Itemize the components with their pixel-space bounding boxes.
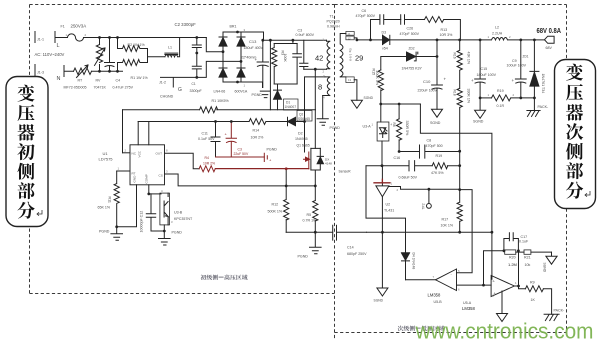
output tag 68V [545,36,555,43]
svg-text:10R 2%: 10R 2% [251,136,265,140]
ground SGND U5-A [497,314,508,322]
capacitor C14 Y-cap [333,225,367,240]
resistor R15 [378,70,383,104]
node N terminal [64,66,74,77]
mosfet Q1 channel [310,148,312,170]
wire TL431 anode down [381,197,383,288]
optocoupler U3-A [377,122,389,141]
svg-text:+: + [512,78,515,83]
svg-text:LD7575: LD7575 [99,157,114,162]
resistor R14 [249,119,287,125]
svg-text:470pF 500V: 470pF 500V [400,32,420,36]
svg-text:VCC: VCC [138,150,142,157]
bridge rectifier BR1 top bar [223,32,264,40]
bridge bottom bar [223,77,263,87]
wire aux top to D2 node [305,77,326,122]
ground SGND R21 [546,252,557,264]
capacitor CX 0.47uF [105,38,115,72]
resistor R3 clamp [272,44,277,85]
svg-text:T1: T1 [330,15,334,19]
U1 pin names [132,150,163,183]
svg-text:200K 5%: 200K 5% [375,71,379,86]
svg-text:J1-1: J1-1 [37,38,44,42]
diode D body [317,148,323,156]
svg-text:68V: 68V [546,46,553,50]
svg-text:180uF 100V: 180uF 100V [477,73,497,77]
pin RT stub [117,170,130,172]
op-amp U5-A [491,276,514,297]
svg-text:D1: D1 [286,101,290,105]
long wire sense top [420,104,492,279]
svg-text:C11: C11 [202,132,208,136]
svg-text:R15: R15 [372,69,376,76]
svg-text:R13: R13 [441,28,448,32]
svg-text:1K: 1K [531,298,536,302]
pin OUT wire [165,153,200,169]
svg-text:D2: D2 [298,132,303,136]
svg-text:R1 10K5%: R1 10K5% [212,99,230,103]
svg-text:R14: R14 [253,129,260,133]
pin CS wire [165,174,316,186]
optocoupler U3-B [160,193,170,225]
wire TL431 ref riser [366,166,406,233]
svg-text:C1: C1 [192,82,196,86]
DC bus wire [264,39,327,41]
svg-text:PQ2620: PQ2620 [327,20,340,24]
capacitor C1 3300pF [192,53,201,77]
svg-text:F1: F1 [61,25,65,29]
svg-text:47K 5%: 47K 5% [431,171,444,175]
svg-text:L2: L2 [495,26,499,30]
svg-text:11: 11 [348,32,351,36]
svg-text:C3: C3 [298,29,303,33]
svg-text:680pF 250V: 680pF 250V [347,252,367,256]
resistor R6 [397,119,402,152]
wire COMP to opto [149,193,161,195]
svg-text:AC: 110V~240V: AC: 110V~240V [35,52,65,57]
svg-text:MF72-05D005: MF72-05D005 [64,86,87,90]
transformer T1 aux winding 8T [323,77,330,96]
VCC rail wire [138,121,249,123]
svg-text:0.1uF 50V: 0.1uF 50V [198,137,215,141]
resistor R7 startup 10K [123,107,316,113]
resistor R5 sense [313,201,318,247]
primary region dashed box [30,5,335,294]
wire fb to output [518,252,520,286]
svg-text:R6: R6 [392,123,396,127]
svg-text:U3-B: U3-B [174,211,183,215]
region captions [201,275,207,280]
svg-text:600V1A: 600V1A [235,90,248,94]
svg-text:C26: C26 [407,27,414,31]
svg-text:470pF 500V: 470pF 500V [356,14,376,18]
wire ZD2 branch [381,40,437,70]
svg-text:C17: C17 [521,235,528,239]
ground PGND opto [159,231,171,245]
diode BR1-D2 [237,32,245,37]
svg-text:C15: C15 [481,67,488,71]
svg-text:C13: C13 [249,39,257,44]
svg-text:J1-3: J1-3 [37,71,44,75]
resistor R13 [425,17,461,40]
feedback riser [484,251,505,285]
svg-text:500K 1%: 500K 1% [268,210,283,214]
svg-text:OUT: OUT [156,152,163,156]
svg-text:12: 12 [348,37,352,41]
pin NC stub [123,152,131,154]
svg-text:RT: RT [132,172,136,176]
svg-text:R19: R19 [436,154,443,158]
mosfet Q1 body arrow (red) [304,157,310,161]
resistor R2 ladder feed [117,38,119,72]
svg-text:8: 8 [318,83,322,92]
wire R12 to C14 row [286,231,333,233]
mosfet Q1 gate bar (red) [308,152,310,169]
ground PACK- hatch2 [544,314,559,320]
terminal block pin 14 [346,77,354,83]
svg-text:13: 13 [348,78,352,82]
svg-text:TP2: TP2 [422,203,426,209]
svg-text:2.2UH: 2.2UH [492,32,503,36]
resistor R20 box [505,250,516,254]
wire R ladder join [147,49,149,63]
svg-text:Q1 6N65: Q1 6N65 [297,144,310,148]
mosfet Q1 drain [311,69,315,148]
wire bottom row to bridge input2 [161,61,242,77]
ground SGND xfmr [351,100,362,108]
svg-text:PACK-: PACK- [538,105,550,109]
svg-text:C6: C6 [362,9,367,13]
svg-text:10k: 10k [525,263,531,267]
TL431 ref red tick [374,179,390,183]
resistor R1 [118,60,148,66]
thermistor RT [74,65,92,78]
svg-text:10R 3%: 10R 3% [440,33,454,37]
svg-text:C9: C9 [512,59,517,63]
wire R11 to GND pin [117,185,137,227]
ground SGND C10 [432,109,443,117]
fuse F1 [63,34,100,41]
svg-text:LM358: LM358 [462,306,475,311]
svg-text:SGND: SGND [364,96,374,100]
svg-text:SGND: SGND [430,121,441,125]
ground PGND U1 [111,227,123,241]
diode D2 [287,117,289,125]
capacitor C8 [420,145,460,158]
svg-text:G: G [178,87,182,93]
op-amp U5-B [436,269,457,291]
resistor R21 box [524,250,531,254]
svg-text:C4: C4 [116,79,121,83]
clamp top wire [274,40,297,43]
ground SGND sense [475,98,486,118]
svg-text:0.47uF 275V: 0.47uF 275V [113,86,134,90]
wire primary bottom [304,68,327,70]
startup feed wire [269,40,271,110]
wire R6 top [381,104,421,119]
svg-text:PGND: PGND [252,93,263,97]
capacitor C6 [371,15,401,25]
svg-text:R16: R16 [453,53,457,59]
svg-text:N: N [57,76,61,82]
wire N rail [92,70,123,72]
svg-text:100K: 100K [283,54,287,63]
resistor R22 47K [432,163,460,169]
svg-text:1N4007: 1N4007 [285,105,297,109]
wire U5-A in+ gnd [501,291,503,314]
svg-text:PACK-: PACK- [554,309,566,313]
svg-text:0.68uF 50V: 0.68uF 50V [399,176,418,180]
node L terminal [55,32,63,43]
svg-text:R9: R9 [530,281,535,285]
diode BR1-D4 [237,67,245,69]
svg-text:CHGND: CHGND [160,95,174,99]
wire U5-B in+ [457,190,473,273]
svg-text:PGND: PGND [267,148,278,152]
svg-text:R2 1W 1%: R2 1W 1% [128,43,146,47]
svg-text:250V3A: 250V3A [71,24,87,29]
svg-text:U3-A: U3-A [363,125,372,129]
varistor RV [95,38,106,72]
svg-text:1.2M: 1.2M [508,262,517,267]
diode D3 [382,35,384,44]
resistor R11 [114,171,119,227]
capacitor C26 [401,15,425,25]
capacitor C clamp [293,44,302,85]
svg-text:L1: L1 [168,46,172,50]
connector J1-1 [34,32,36,43]
pin VCC/GND top stubs [138,122,149,145]
primary/secondary divider dashed [334,5,336,339]
resistor R19 0.1R [492,95,535,101]
svg-text:4148: 4148 [325,162,332,166]
row C16/R22 [366,165,409,167]
svg-text:10R 2%: 10R 2% [203,162,215,166]
svg-text:C14: C14 [347,246,354,250]
svg-text:68V 0.8A: 68V 0.8A [537,28,562,35]
wire bridge col1 mid [223,46,241,68]
diode BR1-D1 [219,32,227,37]
svg-text:1N4935: 1N4935 [295,137,308,141]
capacitor C2 3300pF [192,38,201,54]
svg-text:PGND: PGND [172,231,183,235]
wire TL431 k row [389,187,460,190]
capacitor C11 [211,122,220,158]
wire U3A bottom [381,141,383,166]
svg-text:0.7R 1W: 0.7R 1W [303,219,318,223]
svg-text:22uF 50V: 22uF 50V [234,152,249,156]
svg-text:+: + [255,57,258,62]
svg-text:R19: R19 [497,89,504,93]
svg-text:Eq: 1-5-9: Eq: 1-5-9 [349,49,353,62]
svg-text:R1 1W 1%: R1 1W 1% [131,76,149,80]
inductor L1 [148,38,180,57]
svg-text:ZD1: ZD1 [523,55,529,59]
wire U5-A output [514,286,525,289]
svg-text:SenseR: SenseR [339,170,352,174]
svg-text:0.9uF 800V: 0.9uF 800V [296,33,315,37]
svg-text:10K 1%: 10K 1% [441,224,454,228]
svg-text:R18: R18 [453,90,457,96]
capacitor C13 bulk [257,40,268,87]
svg-text:PGND: PGND [330,126,341,130]
capacitor C7 snubber across primary [300,40,308,69]
transformer T1 primary winding 42T [327,40,330,69]
secondary region dashed box [335,5,567,333]
ground PGND aux [317,119,328,125]
diode ZD1 [530,40,539,72]
resistor R2 [118,46,148,52]
inductor L2 [480,38,544,40]
wire L rail [100,37,207,39]
resistor R16 [457,40,462,88]
svg-text:LN4-06: LN4-06 [214,90,226,94]
svg-text:330K 1%: 330K 1% [467,89,471,104]
svg-text:KPC357NT: KPC357NT [174,217,193,221]
transformer T1 secondary winding 29T [340,34,346,77]
pin COMP stub [148,185,150,194]
svg-text:330R 5%: 330R 5% [405,121,409,137]
svg-text:1N4755 K3Y: 1N4755 K3Y [402,67,423,71]
ground PGND R5 [310,247,322,254]
connector J1-3 [34,65,36,76]
wire U5-B output to D4 [406,279,436,281]
wire gate red [215,168,309,170]
ground SGND TL431 [377,288,388,296]
long wire fb bottom [367,231,492,233]
diode D1 [274,84,282,90]
svg-text:42: 42 [315,54,323,63]
resistor R17 [457,151,462,232]
terminal block pins 11/12 [346,32,354,36]
svg-text:C16: C16 [394,156,401,160]
svg-text:CS: CS [159,174,163,178]
svg-text:U5-A: U5-A [463,301,472,305]
svg-text:220uF 100V: 220uF 100V [418,89,438,93]
svg-text:R4: R4 [205,156,209,160]
diode BR1-D3 [219,67,227,69]
svg-text:R12: R12 [272,203,279,207]
ground PACK- hatch [527,98,540,117]
svg-text:v54: v54 [382,47,388,51]
svg-text:0.98mH: 0.98mH [327,25,340,29]
capacitor C10 [432,57,443,110]
testpoint TP2 [428,189,430,203]
capacitor C17 [504,233,519,251]
capacitor C16 [409,161,432,171]
svg-text:3300pF: 3300pF [190,89,203,93]
TL431 U2 [376,166,389,197]
svg-text:www.cntronics.com: www.cntronics.com [415,319,594,344]
svg-text:100uF 100V: 100uF 100V [507,64,527,68]
svg-text:SGND: SGND [374,299,384,303]
diode ZD2 [407,52,416,61]
wire startup to pin2 [122,110,124,153]
svg-text:180uF 400V: 180uF 400V [244,46,264,50]
wire R9 to pack [543,289,551,315]
ground PGND C13 [260,91,270,98]
svg-text:D4 1N4148: D4 1N4148 [412,253,416,270]
label box Q2 [297,111,312,122]
svg-text:LM358: LM358 [428,293,441,298]
svg-text:U2: U2 [386,203,391,207]
svg-text:470pF 500: 470pF 500 [426,144,443,148]
secondary main wire [357,39,480,41]
svg-text:R5: R5 [307,213,312,217]
svg-text:NC: NC [132,152,137,156]
svg-text:PGND: PGND [298,255,309,259]
node G CHGND tick [172,78,174,87]
svg-text:+: + [471,78,474,83]
wire R6 to C8 row [399,151,419,153]
svg-text:70471K: 70471K [94,86,107,90]
svg-text:R20: R20 [509,256,516,260]
mosfet Q1 source [311,170,315,201]
svg-text:SGND: SGND [543,263,547,273]
svg-text:TL431: TL431 [384,209,394,213]
diode D4 [402,232,410,253]
resistor R4 gate (red) [199,166,215,172]
svg-text:L: L [57,43,60,49]
svg-text:29: 29 [355,54,363,63]
svg-text:0.1R: 0.1R [497,104,505,108]
svg-text:C3: C3 [238,148,242,152]
svg-text:C8: C8 [427,139,432,143]
resistor R9 [525,286,543,292]
wire U5-B in- [457,284,492,286]
capacitor C12 [146,194,155,231]
svg-text:GND: GND [133,175,137,183]
resistor R12 [284,169,289,232]
svg-text:1N4761 T34: 1N4761 T34 [541,74,545,94]
resistor R18 [457,88,462,151]
capacitor C15 [475,40,486,98]
svg-text:R17: R17 [442,218,449,222]
svg-text:43K 1%: 43K 1% [467,52,471,65]
svg-text:+: + [444,77,447,82]
svg-text:U5-B: U5-B [434,300,443,304]
label box D1 [284,99,299,110]
svg-text:PGND: PGND [99,230,110,234]
svg-text:J1-2: J1-2 [159,81,166,85]
wire aux bottom to PGND [322,96,324,119]
svg-text:RV: RV [96,79,102,83]
capacitor C9 [515,40,526,98]
svg-text:SGND: SGND [473,120,484,124]
svg-text:D3: D3 [382,31,387,35]
svg-text:R21: R21 [524,256,531,260]
wire to bridge input1 [206,38,223,52]
IC U1 LD7575 [130,145,165,185]
svg-text:BR1: BR1 [230,25,237,29]
svg-text:U1: U1 [103,151,109,156]
capacitor C3 vcc (red) [226,122,236,158]
svg-text:RT: RT [78,79,84,83]
wire C12/opto emitter join [151,225,164,231]
ground PGND red flag [264,153,267,161]
svg-text:65K 1%: 65K 1% [98,206,111,210]
current sense row [480,97,491,99]
svg-text:10000pF C12: 10000pF C12 [140,211,144,233]
svg-text:ZD2: ZD2 [409,47,415,51]
svg-text:R11: R11 [108,197,112,203]
svg-text:Q2: Q2 [299,113,303,117]
snubber riser left [370,20,372,40]
svg-text:C2 3300pF: C2 3300pF [175,22,197,27]
svg-text:C10: C10 [423,79,431,84]
wire C11/C3 ground red [216,156,265,158]
svg-text:COMP: COMP [145,174,149,183]
